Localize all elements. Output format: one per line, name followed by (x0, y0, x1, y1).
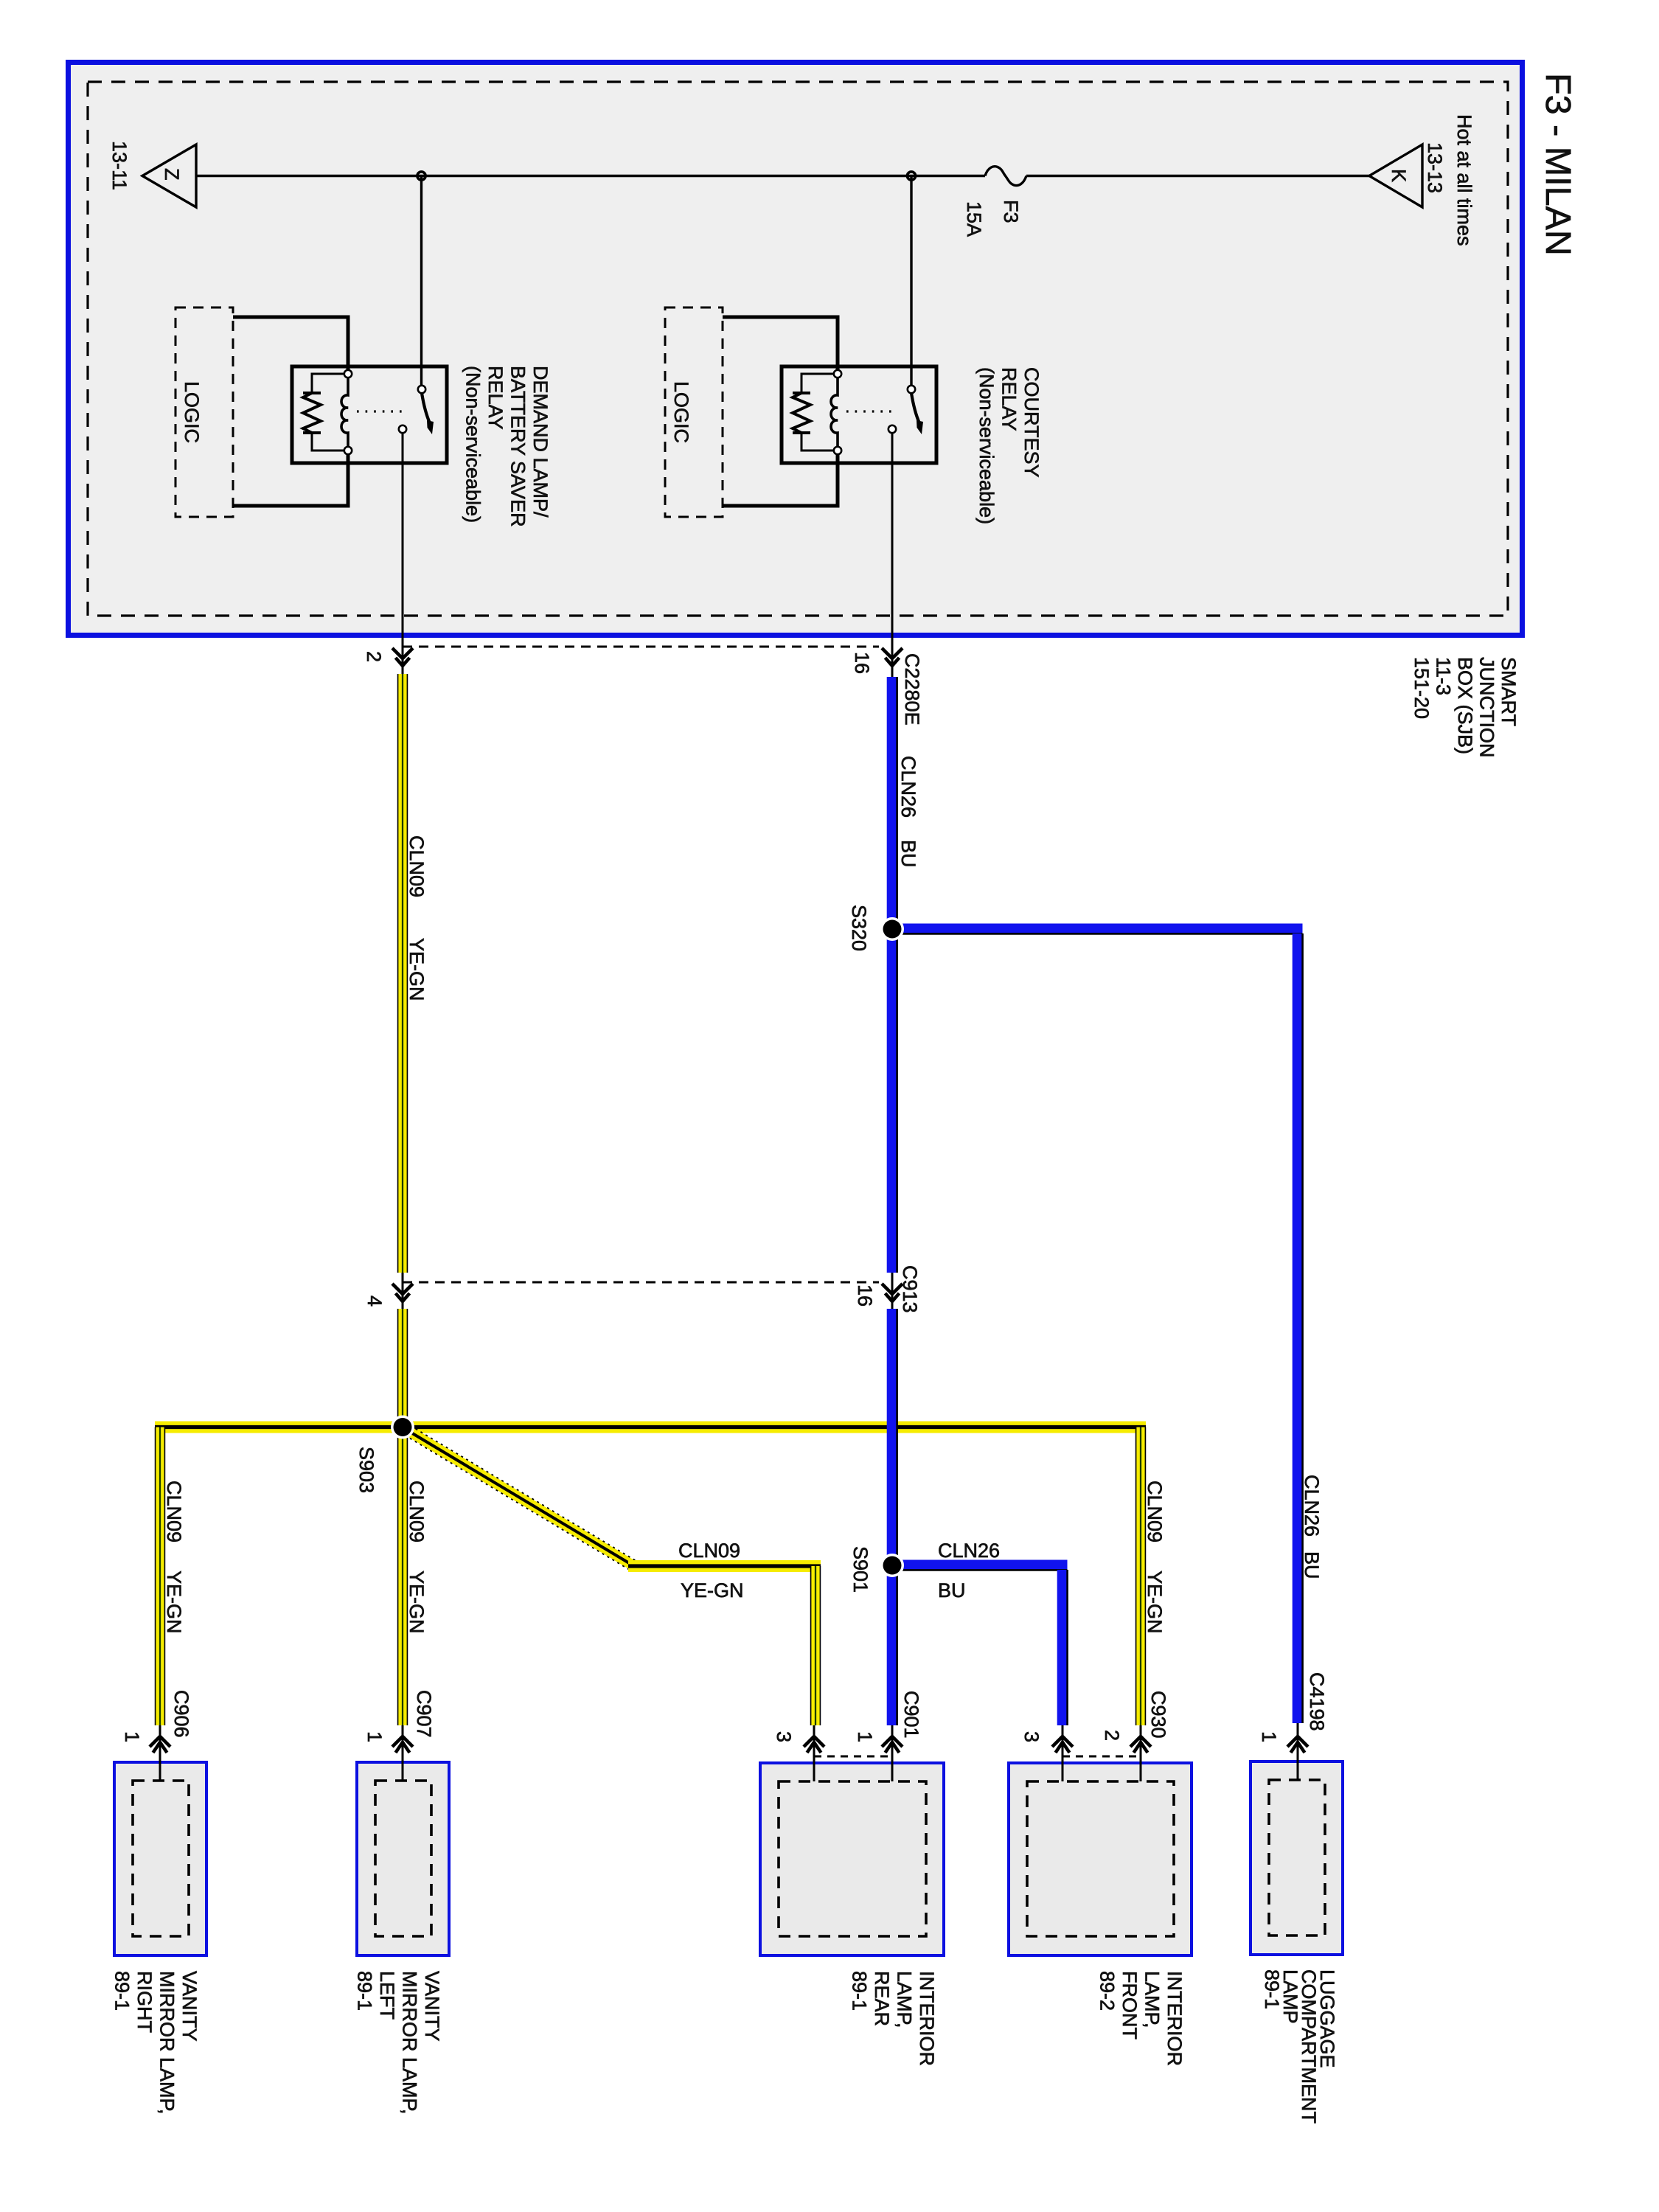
wire CLN09 YE-GN from C913 to vanity mirror left C907 (397, 1309, 408, 1725)
courtesy relay output wire (891, 434, 894, 647)
connector C2280E dashed line (403, 646, 879, 648)
courtesy relay coil drive wire lower (723, 453, 838, 506)
svg-text:INTERIOR: INTERIOR (1164, 1971, 1186, 2066)
connector C901 dashed bridge (814, 1756, 892, 1758)
svg-text:YE-GN: YE-GN (163, 1571, 185, 1634)
demand relay switch pivot (418, 386, 425, 393)
wire tap down to demand relay switch (420, 176, 422, 386)
connector arrow at C2280E pin 16 (882, 648, 902, 658)
svg-text:13-13: 13-13 (1424, 142, 1446, 193)
svg-text:YE-GN: YE-GN (406, 938, 428, 1001)
svg-text:1: 1 (854, 1731, 876, 1742)
svg-text:INTERIOR: INTERIOR (916, 1971, 938, 2066)
wire through C913 pin 4 (402, 1273, 404, 1310)
svg-text:RELAY: RELAY (484, 366, 507, 430)
svg-text:BU: BU (1301, 1551, 1323, 1579)
svg-text:4: 4 (364, 1295, 386, 1307)
courtesy relay coil resistor (801, 374, 838, 393)
wire through C2280E pin 2 (402, 647, 404, 675)
svg-text:89-1: 89-1 (111, 1971, 133, 2011)
entry wire interior front pin 3 (1062, 1725, 1064, 1781)
svg-text:YE-GN: YE-GN (1144, 1571, 1166, 1634)
svg-text:VANITY: VANITY (421, 1971, 443, 2042)
svg-text:89-2: 89-2 (1096, 1971, 1119, 2011)
SJB inner dashed border (88, 82, 1508, 616)
wire CLN09 YE-GN branch to interior lamp front (1135, 1427, 1147, 1726)
off-page reference triangle Z (142, 145, 196, 207)
courtesy relay box (782, 366, 936, 463)
courtesy relay coil (831, 378, 838, 447)
courtesy relay coil pin lower (834, 447, 841, 454)
svg-text:2: 2 (363, 651, 385, 662)
demand relay output wire (402, 434, 404, 647)
svg-text:YE-GN: YE-GN (681, 1579, 744, 1601)
svg-text:CLN09: CLN09 (1144, 1481, 1166, 1543)
svg-text:S903: S903 (355, 1447, 378, 1493)
splice S903 (391, 1416, 414, 1439)
svg-text:DEMAND LAMP/: DEMAND LAMP/ (529, 366, 552, 518)
svg-text:2: 2 (1101, 1730, 1123, 1741)
demand relay actuation dotted link (357, 410, 406, 412)
svg-text:89-1: 89-1 (849, 1971, 871, 2011)
svg-text:C930: C930 (1147, 1691, 1169, 1739)
svg-text:MIRROR LAMP,: MIRROR LAMP, (399, 1971, 421, 2115)
svg-text:CLN26: CLN26 (938, 1540, 1000, 1562)
demand relay LOGIC dashed box (175, 307, 233, 517)
wire CLN26 BU from C2280E to C913 (887, 677, 897, 1273)
wire hot bus from Z to fuse (196, 175, 985, 177)
svg-text:LAMP,: LAMP, (894, 1971, 916, 2028)
svg-text:3: 3 (773, 1731, 795, 1742)
svg-text:CLN26: CLN26 (897, 756, 919, 818)
connector C930 dashed bridge (1062, 1756, 1141, 1758)
connector arrow C901 pin 3 (804, 1736, 824, 1747)
courtesy relay coil pin upper (834, 370, 841, 378)
svg-text:RELAY: RELAY (998, 367, 1020, 431)
svg-text:11-3: 11-3 (1433, 657, 1455, 695)
connector arrow at C913 pin 16 (882, 1284, 902, 1294)
svg-text:LOGIC: LOGIC (181, 381, 203, 443)
svg-text:FRONT: FRONT (1119, 1971, 1141, 2039)
svg-text:LEFT: LEFT (376, 1971, 398, 2020)
svg-text:BATTERY SAVER: BATTERY SAVER (507, 366, 529, 527)
demand relay coil pin lower (344, 447, 352, 454)
entry wire interior front pin 2 (1140, 1725, 1142, 1781)
entry wire vanity left pin 1 (402, 1725, 404, 1781)
svg-text:C4198: C4198 (1306, 1672, 1328, 1731)
demand relay coil resistor (312, 374, 348, 393)
wire through C2280E pin 16 (891, 647, 894, 678)
wire CLN09 YE-GN diagonal branch to interior lamp rear (403, 1427, 634, 1566)
svg-text:CLN26: CLN26 (1301, 1475, 1323, 1537)
svg-text:S901: S901 (849, 1546, 872, 1593)
SJB power distribution box outline (69, 63, 1523, 636)
svg-text:REAR: REAR (871, 1971, 893, 2026)
wire CLN09 YE-GN from demand relay to C913 (397, 674, 408, 1273)
courtesy relay switch blade (911, 393, 919, 423)
wire CLN26 BU from C913 to interior lamp rear C901 (887, 1309, 897, 1725)
svg-text:LAMP,: LAMP, (1141, 1971, 1164, 2028)
svg-text:LOGIC: LOGIC (670, 381, 692, 443)
connector arrow C930 pin 2 (1130, 1736, 1151, 1747)
svg-text:3: 3 (1020, 1731, 1043, 1742)
component box vanity mirror lamp right (114, 1762, 206, 1955)
svg-text:BU: BU (897, 840, 919, 868)
svg-text:1: 1 (121, 1731, 143, 1742)
svg-text:K: K (1388, 169, 1410, 182)
svg-text:CLN09: CLN09 (406, 835, 428, 897)
svg-text:COURTESY: COURTESY (1020, 367, 1043, 478)
svg-text:MIRROR LAMP,: MIRROR LAMP, (156, 1971, 178, 2115)
entry wire vanity right pin 1 (159, 1725, 161, 1781)
svg-text:C907: C907 (413, 1690, 435, 1738)
svg-text:89-1: 89-1 (354, 1971, 376, 2011)
fuse F3 15A (985, 167, 1026, 186)
junction dot at demand relay tap (417, 172, 425, 180)
svg-text:C2280E: C2280E (901, 653, 923, 726)
svg-text:Hot at all times: Hot at all times (1453, 114, 1475, 246)
connector arrow C906 pin 1 (150, 1736, 170, 1747)
wire CLN09 YE-GN branch to vanity mirror right (155, 1427, 166, 1726)
svg-text:VANITY: VANITY (178, 1971, 201, 2042)
splice S320 (880, 917, 904, 941)
connector arrow at C913 pin 4 (392, 1284, 413, 1294)
svg-text:1: 1 (1258, 1731, 1280, 1742)
courtesy relay actuation dotted link (846, 410, 896, 412)
off-page reference triangle K (1369, 145, 1422, 207)
demand relay coil (341, 378, 348, 447)
svg-text:CLN09: CLN09 (406, 1481, 428, 1543)
entry wire interior rear pin 1 (891, 1725, 894, 1781)
component box interior lamp rear (760, 1763, 944, 1955)
svg-text:89-1: 89-1 (1261, 1969, 1283, 2009)
entry wire luggage lamp pin 1 (1297, 1723, 1299, 1779)
demand relay coil pin upper (344, 370, 352, 378)
svg-text:(Non-serviceable): (Non-serviceable) (462, 366, 484, 523)
svg-text:RIGHT: RIGHT (133, 1971, 156, 2033)
svg-text:S320: S320 (848, 905, 870, 951)
svg-text:C901: C901 (900, 1691, 922, 1739)
svg-text:Z: Z (161, 168, 183, 181)
svg-text:F3 - MILAN: F3 - MILAN (1538, 73, 1578, 256)
wire through C913 pin 16 (891, 1273, 894, 1310)
splice S901 (880, 1554, 904, 1577)
svg-text:BU: BU (938, 1579, 966, 1601)
svg-text:CLN09: CLN09 (163, 1481, 185, 1543)
wire fuse to K (1026, 175, 1369, 177)
courtesy relay LOGIC dashed box (665, 307, 723, 517)
demand relay switch blade (422, 393, 430, 423)
svg-text:CLN09: CLN09 (678, 1540, 740, 1562)
svg-text:C913: C913 (899, 1265, 921, 1313)
svg-text:YE-GN: YE-GN (406, 1571, 428, 1634)
connector arrow C4198 pin 1 (1287, 1736, 1308, 1747)
connector arrow C907 pin 1 (392, 1736, 413, 1747)
component box vanity mirror lamp left (357, 1762, 449, 1955)
junction dot at courtesy relay tap (907, 172, 915, 180)
connector arrow C930 pin 3 (1052, 1736, 1073, 1747)
courtesy relay switch contact (888, 425, 896, 433)
svg-text:13-11: 13-11 (108, 141, 131, 190)
entry wire interior rear pin 3 (813, 1725, 815, 1781)
splice S901 branch wire to interior lamp front (892, 1560, 1068, 1570)
demand relay coil drive wire upper (233, 317, 348, 372)
wire CLN09 YE-GN horizontal distribution (155, 1422, 1146, 1433)
splice S320 branch wire to luggage compartment lamp (893, 924, 1303, 933)
demand relay switch contact (399, 425, 406, 433)
svg-text:(Non-serviceable): (Non-serviceable) (975, 367, 998, 524)
demand relay box (292, 366, 447, 463)
component box interior lamp front (1009, 1763, 1192, 1955)
wire tap down to courtesy relay switch (910, 176, 912, 388)
svg-text:BOX (SJB): BOX (SJB) (1454, 657, 1476, 754)
svg-text:16: 16 (851, 652, 873, 674)
connector C913 dashed line (403, 1281, 879, 1284)
svg-text:151-20: 151-20 (1411, 657, 1433, 719)
connector arrow C901 pin 1 (882, 1736, 902, 1747)
svg-text:C906: C906 (170, 1690, 192, 1738)
courtesy relay switch pivot (908, 386, 915, 393)
component box luggage compartment lamp (1251, 1761, 1343, 1955)
svg-text:F3: F3 (1000, 200, 1022, 223)
courtesy relay coil drive wire upper (723, 317, 838, 372)
svg-text:JUNCTION: JUNCTION (1476, 657, 1498, 758)
svg-text:1: 1 (364, 1731, 386, 1742)
svg-text:SMART: SMART (1498, 657, 1520, 726)
connector arrow at C2280E pin 2 (392, 648, 413, 658)
svg-text:16: 16 (854, 1284, 876, 1307)
svg-text:15A: 15A (963, 201, 985, 237)
demand relay coil drive wire lower (233, 453, 348, 506)
